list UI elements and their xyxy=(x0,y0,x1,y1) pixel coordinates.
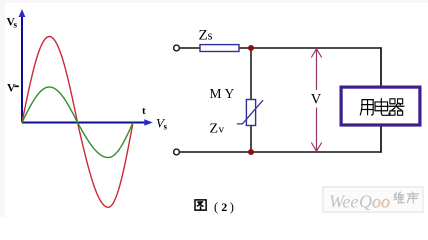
svg-text:): ) xyxy=(230,200,234,214)
svg-text:Z: Z xyxy=(210,122,219,137)
svg-text:s: s xyxy=(14,20,18,30)
svg-text:s: s xyxy=(208,29,213,43)
svg-text:Z: Z xyxy=(199,28,208,44)
svg-text:t: t xyxy=(142,105,146,117)
svg-text:oo: oo xyxy=(372,192,390,212)
svg-text:MY: MY xyxy=(210,86,238,101)
svg-text:s: s xyxy=(164,122,168,132)
svg-text:2: 2 xyxy=(221,200,227,214)
svg-text:Q: Q xyxy=(359,192,372,212)
svg-text:V: V xyxy=(311,92,322,108)
svg-text:(: ( xyxy=(214,200,218,214)
svg-text:v: v xyxy=(219,124,225,136)
svg-text:V: V xyxy=(7,83,16,95)
svg-text:Wee: Wee xyxy=(329,192,358,212)
